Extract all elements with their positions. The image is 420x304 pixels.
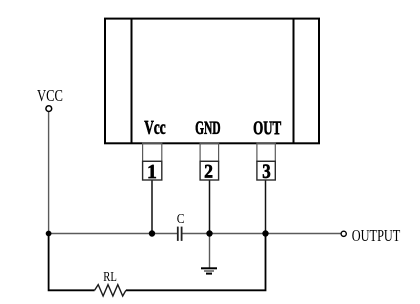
- svg-text:OUTPUT: OUTPUT: [352, 226, 401, 245]
- svg-text:C: C: [177, 212, 185, 227]
- svg-text:VCC: VCC: [37, 86, 63, 105]
- svg-text:RL: RL: [103, 270, 117, 285]
